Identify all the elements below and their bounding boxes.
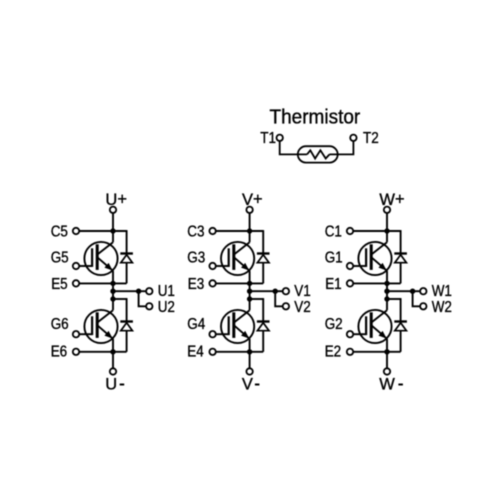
wire G3 gate (216, 265, 229, 267)
terminal G3 (209, 263, 215, 269)
svg-text:E3: E3 (188, 276, 204, 293)
svg-text:G1: G1 (325, 249, 343, 266)
diode D2 (anti-parallel) (394, 298, 407, 352)
wire lower collector node W (387, 298, 401, 300)
svg-text:W: W (379, 375, 395, 393)
svg-text:G2: G2 (325, 316, 343, 333)
diode D6 (anti-parallel) (120, 298, 133, 352)
terminal U- (110, 368, 116, 374)
wire mid rail V (249, 283, 251, 310)
terminal T2 (350, 135, 356, 141)
wire E2 emitter node (353, 351, 400, 353)
wire to U1 (139, 290, 146, 292)
svg-text:G4: G4 (187, 316, 205, 333)
wire U+ to collector node (112, 213, 114, 231)
svg-text:U2: U2 (158, 299, 175, 316)
wire E1 emitter node (353, 282, 400, 284)
junction emitter node V (247, 281, 251, 285)
wire C3 collector node (216, 230, 263, 232)
svg-text:G5: G5 (51, 249, 69, 266)
svg-text:G3: G3 (187, 249, 205, 266)
junction U1 branch (136, 289, 140, 293)
junction V1 branch (273, 289, 277, 293)
wire W+ to collector node (386, 213, 388, 231)
terminal W1 (420, 288, 426, 294)
junction collector node U+ (111, 229, 115, 233)
terminal T1 (277, 135, 283, 141)
transistor Q4 (IGBT) (221, 310, 254, 352)
wire to U- (112, 352, 114, 368)
wire C5 collector node (79, 230, 126, 232)
terminal W2 (420, 303, 426, 309)
svg-text:E1: E1 (325, 276, 341, 293)
diode D3 (anti-parallel) (257, 230, 270, 283)
wire output tap V (250, 290, 276, 292)
svg-text:Thermistor: Thermistor (270, 106, 361, 129)
junction collector node V+ (247, 229, 251, 233)
terminal E3 (209, 280, 215, 286)
transistor Q6 (IGBT) (84, 310, 117, 352)
wire C1 collector node (353, 230, 400, 232)
wire to W1 (413, 290, 420, 292)
thermistor RT zigzag element (307, 150, 330, 158)
wire E6 emitter node (79, 351, 126, 353)
svg-text:E6: E6 (51, 344, 67, 361)
junction output tap V (247, 289, 251, 293)
terminal G5 (73, 263, 79, 269)
terminal W- (384, 368, 390, 374)
terminal V1 (283, 288, 289, 294)
svg-text:V+: V+ (242, 191, 263, 209)
diode D4 (anti-parallel) (257, 298, 270, 352)
wire E3 emitter node (216, 282, 263, 284)
wire thermistor to T2 (330, 141, 354, 154)
wire G2 gate (353, 333, 366, 335)
wire E4 emitter node (216, 351, 263, 353)
svg-text:V1: V1 (294, 283, 310, 300)
junction lower collector W (385, 297, 389, 301)
terminal G4 (209, 331, 215, 337)
terminal V2 (283, 303, 289, 309)
svg-text:C3: C3 (187, 224, 204, 241)
wire G5 gate (79, 265, 92, 267)
wire to W- (386, 352, 388, 368)
junction emitter node W (385, 281, 389, 285)
terminal E6 (73, 349, 79, 355)
wire to V1 (275, 290, 282, 292)
terminal U2 (146, 303, 152, 309)
wire to V- (249, 352, 251, 368)
wire to U2 (139, 291, 146, 306)
svg-text:T2: T2 (363, 130, 379, 147)
wire to V2 (275, 291, 282, 306)
junction emitter node W- (385, 350, 389, 354)
diode D5 (anti-parallel) (120, 230, 133, 283)
terminal U1 (146, 288, 152, 294)
wire lower collector node U (113, 298, 127, 300)
wire lower collector node V (250, 298, 264, 300)
svg-text:V: V (242, 375, 253, 393)
svg-text:U1: U1 (158, 283, 175, 300)
svg-text:W+: W+ (379, 191, 404, 209)
terminal G2 (347, 331, 353, 337)
junction emitter node V- (247, 350, 251, 354)
wire mid rail U (112, 283, 114, 310)
svg-text:V2: V2 (294, 299, 310, 316)
wire to W2 (413, 291, 420, 306)
svg-text:T1: T1 (260, 130, 276, 147)
terminal C3 (209, 228, 215, 234)
wire G6 gate (79, 333, 92, 335)
terminal C1 (347, 228, 353, 234)
transistor Q2 (IGBT) (358, 310, 391, 352)
svg-text:E4: E4 (187, 344, 203, 361)
terminal E5 (73, 280, 79, 286)
wire output tap W (387, 290, 413, 292)
terminal W+ (384, 207, 390, 213)
svg-text:W1: W1 (432, 283, 452, 300)
terminal V- (246, 368, 252, 374)
junction lower collector V (247, 297, 251, 301)
svg-text:U+: U+ (105, 191, 127, 209)
terminal V+ (246, 207, 252, 213)
terminal C5 (73, 228, 79, 234)
svg-text:E5: E5 (51, 276, 67, 293)
wire mid rail W (386, 283, 388, 310)
transistor Q3 (IGBT) (221, 231, 254, 283)
svg-text:E2: E2 (325, 344, 341, 361)
wire E5 emitter node (79, 282, 126, 284)
wire output tap U (113, 290, 139, 292)
junction emitter node U- (111, 350, 115, 354)
diode D1 (anti-parallel) (394, 230, 407, 283)
svg-text:W2: W2 (432, 299, 452, 316)
terminal G6 (73, 331, 79, 337)
junction emitter node U (111, 281, 115, 285)
terminal U+ (110, 207, 116, 213)
thermistor RT body (stadium outline) (298, 146, 338, 162)
wire T1 to thermistor (280, 141, 307, 154)
transistor Q1 (IGBT) (358, 231, 391, 283)
junction output tap U (111, 289, 115, 293)
svg-text:C5: C5 (51, 224, 68, 241)
junction lower collector U (111, 297, 115, 301)
junction collector node W+ (385, 229, 389, 233)
wire G1 gate (353, 265, 366, 267)
terminal G1 (347, 263, 353, 269)
svg-text:C1: C1 (325, 224, 342, 241)
terminal E2 (347, 349, 353, 355)
junction output tap W (385, 289, 389, 293)
wire V+ to collector node (249, 213, 251, 231)
svg-text:G6: G6 (51, 316, 69, 333)
terminal E1 (347, 280, 353, 286)
svg-text:U: U (105, 375, 117, 393)
wire G4 gate (216, 333, 229, 335)
junction W1 branch (410, 289, 414, 293)
transistor Q5 (IGBT) (84, 231, 117, 283)
terminal E4 (209, 349, 215, 355)
